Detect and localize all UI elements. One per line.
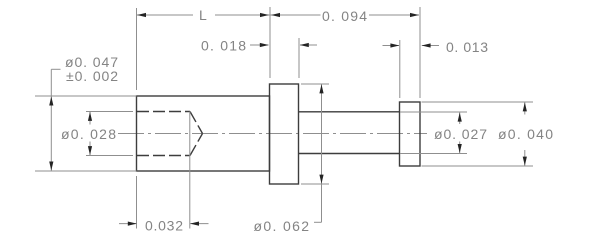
- svg-text:ø0. 040: ø0. 040: [498, 126, 553, 142]
- svg-text:ø0. 027: ø0. 027: [434, 126, 487, 142]
- svg-text:ø0. 028: ø0. 028: [61, 126, 116, 142]
- svg-text:±0. 002: ±0. 002: [66, 68, 118, 84]
- svg-text:0. 013: 0. 013: [446, 39, 488, 55]
- svg-text:L: L: [199, 7, 207, 23]
- svg-text:0. 018: 0. 018: [201, 38, 246, 54]
- svg-text:0. 094: 0. 094: [322, 8, 367, 24]
- svg-text:0.032: 0.032: [145, 218, 183, 234]
- svg-text:ø0. 062: ø0. 062: [254, 218, 310, 234]
